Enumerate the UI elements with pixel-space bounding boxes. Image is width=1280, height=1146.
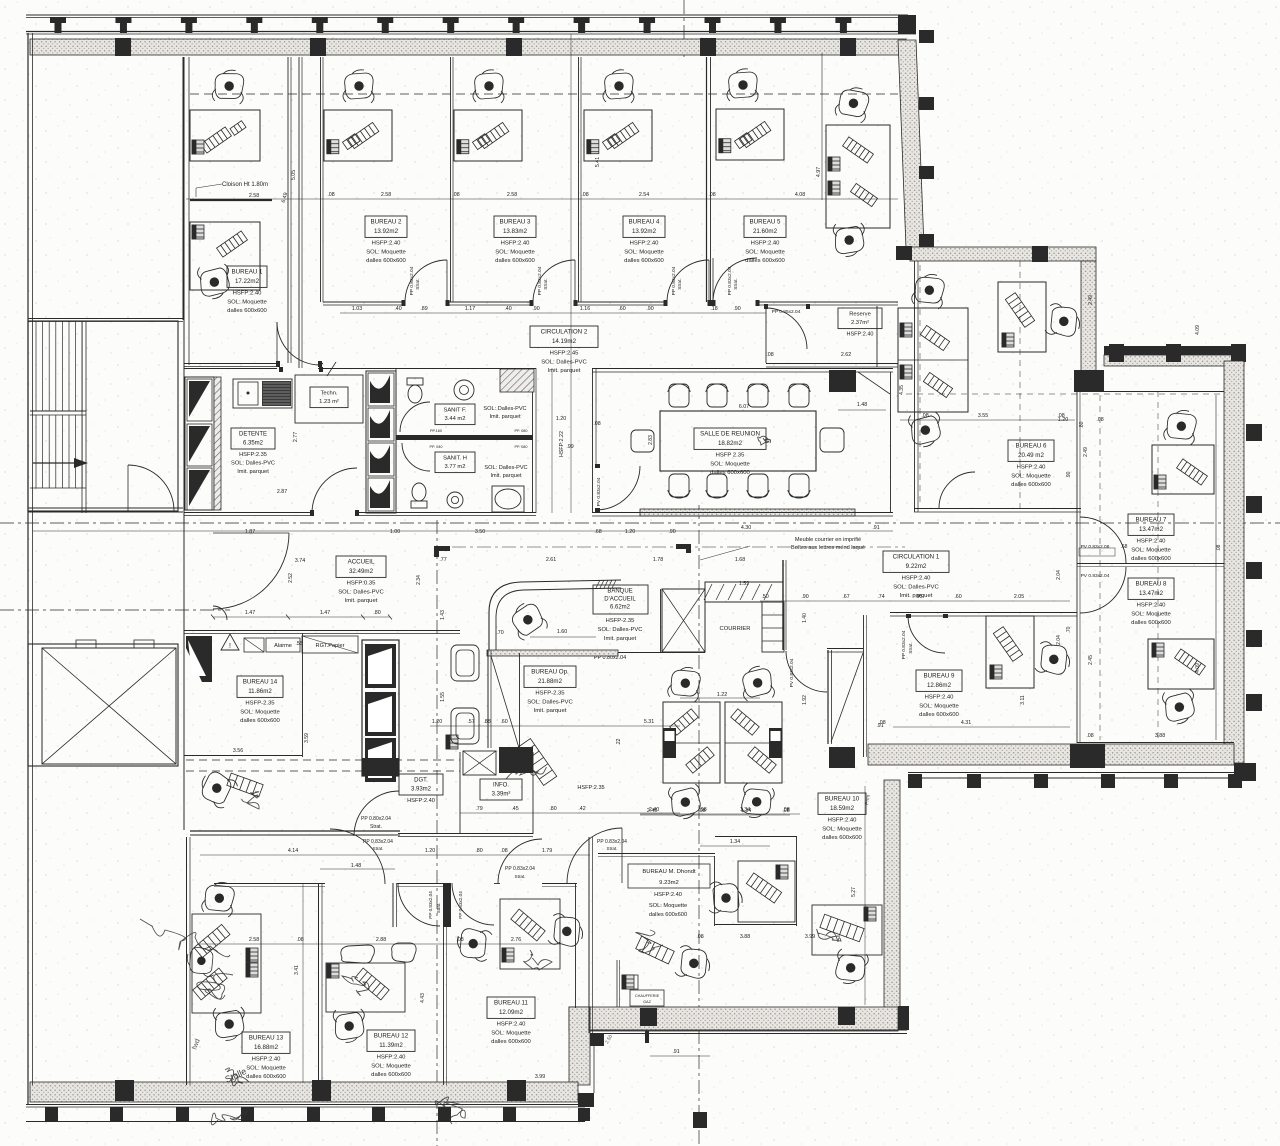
stair landing — [30, 410, 86, 412]
right wing bottom ticks — [908, 774, 922, 788]
door arc into b11 left — [452, 883, 494, 925]
left block outer wall — [186, 837, 188, 1085]
svg-text:dalles 600x600: dalles 600x600 — [227, 308, 267, 314]
svg-text:1.79: 1.79 — [542, 848, 552, 854]
bureau14 walls — [302, 633, 304, 757]
svg-text:dalles 600x600: dalles 600x600 — [1131, 556, 1171, 562]
svg-text:Reserve: Reserve — [849, 311, 871, 317]
circulation2 dim row — [340, 312, 766, 314]
svg-text:18.59m2: 18.59m2 — [830, 805, 855, 812]
svg-text:5.31: 5.31 — [644, 719, 654, 725]
svg-text:HSFP:2.40: HSFP:2.40 — [372, 241, 402, 247]
alarme triangle — [221, 634, 239, 650]
bureau7 label — [1128, 514, 1174, 535]
bureau10 bottom frame — [590, 1029, 907, 1031]
svg-text:COURRIER: COURRIER — [720, 626, 751, 632]
svg-text:4.09: 4.09 — [1195, 325, 1201, 335]
bureau op label — [524, 666, 576, 687]
svg-text:Imit. parquet: Imit. parquet — [490, 473, 522, 479]
svg-text:SOL: Dalles-PVC: SOL: Dalles-PVC — [338, 589, 384, 595]
door frame stub b12 — [392, 883, 394, 927]
svg-text:.91: .91 — [672, 1049, 679, 1055]
svg-text:dalles 600x600: dalles 600x600 — [624, 258, 664, 264]
stair door arc — [128, 465, 174, 511]
svg-text:.42: .42 — [578, 806, 585, 812]
svg-text:PP 0.83x2.04: PP 0.83x2.04 — [458, 891, 463, 919]
salle chair right — [820, 428, 844, 452]
open desk sketch 2 — [517, 739, 556, 786]
svg-text:Cloison Ht 1.80m: Cloison Ht 1.80m — [222, 182, 268, 188]
svg-text:.90: .90 — [668, 529, 675, 535]
bureau2 label — [365, 216, 407, 237]
svg-text:BUREAU 7: BUREAU 7 — [1136, 517, 1168, 524]
svg-text:1.34: 1.34 — [740, 807, 750, 813]
stairwell box — [28, 321, 178, 511]
svg-text:.91: .91 — [876, 723, 883, 729]
svg-text:GAZ: GAZ — [643, 1000, 651, 1004]
cluster printers — [663, 728, 676, 758]
svg-text:SOL: Dalles-PVC: SOL: Dalles-PVC — [483, 406, 526, 412]
svg-text:.60: .60 — [500, 719, 507, 725]
top facade inner line — [26, 31, 916, 33]
svg-text:13.92m2: 13.92m2 — [632, 228, 657, 235]
svg-text:Imit. parquet: Imit. parquet — [548, 368, 581, 374]
svg-text:1.48: 1.48 — [351, 863, 361, 869]
salle walls — [592, 368, 893, 370]
bureau1 chair upper — [212, 69, 246, 105]
svg-text:4.43: 4.43 — [420, 993, 426, 1003]
salle table — [660, 411, 816, 471]
bureau1/2 duct walls — [287, 57, 289, 363]
svg-text:1.22: 1.22 — [717, 692, 727, 698]
bureau10 SE corner — [898, 1006, 909, 1030]
svg-text:3.41: 3.41 — [294, 965, 300, 975]
door arc bureau2 — [405, 260, 447, 302]
svg-text:1.68: 1.68 — [735, 557, 745, 563]
svg-text:HSFP:2.40: HSFP:2.40 — [407, 798, 435, 804]
svg-text:.08: .08 — [1057, 413, 1064, 419]
salle door arc — [596, 466, 640, 510]
svg-text:.80: .80 — [1079, 421, 1085, 428]
reserve door arc — [766, 308, 807, 349]
rgt cabinet stack — [362, 640, 399, 776]
bureau12 upper sketch blobs — [341, 945, 375, 963]
svg-text:2.58: 2.58 — [249, 937, 259, 943]
svg-text:.08: .08 — [1216, 544, 1222, 551]
salle black box — [829, 370, 856, 392]
svg-text:.67: .67 — [842, 594, 849, 600]
svg-text:BUREAU 8: BUREAU 8 — [1136, 581, 1168, 588]
svg-text:SOL: Moquette: SOL: Moquette — [371, 1063, 411, 1069]
svg-text:SOL: Moquette: SOL: Moquette — [624, 249, 664, 255]
svg-text:D'ACCUEIL: D'ACCUEIL — [604, 597, 636, 603]
bureau9 chair — [1034, 641, 1072, 677]
svg-text:PV 0.83x2.06: PV 0.83x2.06 — [1081, 544, 1110, 550]
right wing right band — [1224, 361, 1244, 763]
bureau6 door arc — [939, 472, 975, 508]
svg-text:Strat.: Strat. — [607, 846, 618, 851]
accueil entry arcs — [213, 533, 289, 609]
svg-text:.89: .89 — [420, 306, 427, 312]
svg-text:2.88: 2.88 — [376, 937, 386, 943]
svg-text:.70: .70 — [496, 630, 503, 636]
stair arrow — [33, 462, 74, 464]
svg-text:2.87: 2.87 — [277, 489, 287, 495]
svg-text:Strat.: Strat. — [543, 278, 549, 289]
svg-text:SOL: Moquette: SOL: Moquette — [822, 826, 862, 832]
left outer wall — [27, 33, 29, 1104]
stair treads upper flight — [35, 321, 37, 411]
sanitf basin — [454, 380, 474, 400]
top band column squares — [115, 38, 131, 56]
svg-text:.79: .79 — [475, 806, 482, 812]
right wing top black bar — [1104, 346, 1244, 355]
bureau op left wall — [487, 650, 489, 748]
svg-text:3.39m²: 3.39m² — [492, 792, 511, 798]
centerline vertical top — [683, 0, 685, 57]
svg-text:HSFP:2.22: HSFP:2.22 — [559, 431, 565, 457]
svg-text:5.27: 5.27 — [851, 887, 857, 897]
right wing SE corner — [1234, 763, 1256, 781]
svg-text:20.49 m2: 20.49 m2 — [1018, 452, 1044, 459]
svg-text:SOL: Moquette: SOL: Moquette — [491, 1030, 531, 1036]
svg-text:dalles 600x600: dalles 600x600 — [495, 258, 535, 264]
svg-text:.57: .57 — [467, 719, 474, 725]
bureau14 black door — [186, 636, 212, 682]
svg-text:2.52: 2.52 — [288, 573, 294, 583]
bureau9 desk — [986, 616, 1034, 688]
bureau5 inner line — [821, 53, 823, 200]
chaufferie flue — [616, 960, 618, 1007]
svg-text:dalles 600x600: dalles 600x600 — [366, 258, 406, 264]
cluster desks — [663, 702, 720, 783]
svg-text:1.17: 1.17 — [465, 306, 475, 312]
svg-text:11.39m2: 11.39m2 — [379, 1042, 403, 1049]
svg-text:2.54: 2.54 — [639, 192, 649, 198]
svg-text:1.60: 1.60 — [557, 629, 567, 635]
svg-text:3.55: 3.55 — [978, 413, 988, 419]
svg-text:HSFP:2.40: HSFP:2.40 — [1137, 539, 1167, 545]
svg-text:.80: .80 — [549, 806, 556, 812]
svg-text:PP 0.83x2.04: PP 0.83x2.04 — [597, 839, 627, 845]
core wall x184 — [183, 57, 185, 830]
svg-text:dalles 600x600: dalles 600x600 — [371, 1072, 411, 1078]
svg-text:2.49: 2.49 — [1088, 295, 1094, 305]
bureau5 corner chairs — [834, 84, 873, 124]
bureau7 chair — [1163, 408, 1199, 446]
mid office desk — [738, 861, 795, 922]
svg-text:HSFP 2.35: HSFP 2.35 — [716, 453, 745, 459]
svg-text:PP 0.83x2.04: PP 0.83x2.04 — [505, 866, 535, 872]
bureau10 bottom band — [569, 1007, 898, 1031]
svg-text:SOL: Moquette: SOL: Moquette — [1011, 473, 1051, 479]
middle dim string — [33, 530, 893, 532]
svg-text:.80: .80 — [475, 848, 482, 854]
elevator outer — [28, 644, 178, 766]
svg-text:17.22m2: 17.22m2 — [235, 278, 260, 285]
bureau10 label — [818, 793, 866, 814]
door arc bureau1 — [277, 322, 320, 365]
wall above bureau14 — [184, 630, 460, 632]
handwriting bottom-center — [435, 1097, 465, 1124]
svg-text:SOL: Moquette: SOL: Moquette — [227, 299, 267, 305]
svg-text:HSFP:2.40: HSFP:2.40 — [925, 695, 955, 701]
partition b3/b4 — [578, 57, 580, 302]
svg-text:HSFP:2.40: HSFP:2.40 — [751, 241, 781, 247]
dgt door arc — [354, 791, 399, 836]
top wall stipple band — [30, 39, 906, 55]
svg-text:SANIT F.: SANIT F. — [443, 407, 466, 413]
bureau6 desk left — [898, 308, 968, 412]
svg-text:1.47: 1.47 — [245, 610, 255, 616]
svg-text:1.20: 1.20 — [432, 719, 442, 725]
svg-text:5.05: 5.05 — [291, 170, 297, 180]
svg-text:Techn.: Techn. — [320, 390, 337, 396]
svg-text:ACCUEIL: ACCUEIL — [348, 559, 375, 566]
corridor right door arc — [567, 828, 622, 883]
door jamb stubs — [402, 300, 406, 306]
bureau9 label — [916, 670, 962, 691]
svg-text:SALLE DE REUNION: SALLE DE REUNION — [700, 431, 760, 438]
bureau8 desk — [1148, 639, 1214, 689]
svg-text:.91: .91 — [872, 525, 879, 531]
svg-text:3.59: 3.59 — [304, 733, 310, 743]
courrier walls — [660, 589, 662, 652]
dgt label — [399, 774, 443, 795]
svg-text:.90: .90 — [733, 306, 740, 312]
svg-text:.08: .08 — [782, 807, 789, 813]
svg-text:HSFP:0.35: HSFP:0.35 — [347, 581, 377, 587]
svg-text:13.47m2: 13.47m2 — [1139, 590, 1164, 597]
right wing bottom stipple — [868, 744, 1234, 765]
bureau3 desk — [454, 110, 522, 161]
svg-text:4.14: 4.14 — [288, 848, 298, 854]
info black block — [499, 747, 533, 773]
svg-text:Strat.: Strat. — [515, 874, 526, 879]
top-left room walls — [182, 57, 184, 320]
b10 desk — [812, 905, 882, 955]
svg-text:HSFP:2.40: HSFP:2.40 — [1017, 465, 1047, 471]
chaufferie label — [630, 990, 664, 1006]
svg-text:1.03: 1.03 — [352, 306, 362, 312]
svg-text:.40: .40 — [504, 306, 511, 312]
bureau3 chair — [473, 70, 504, 103]
svg-text:SOL: Dalles-PVC: SOL: Dalles-PVC — [527, 699, 573, 705]
svg-text:14.19m2: 14.19m2 — [552, 338, 577, 345]
salle chairs top — [669, 384, 689, 407]
bureau8 chair — [1162, 688, 1198, 726]
svg-text:4.30: 4.30 — [741, 525, 751, 531]
svg-text:4.97: 4.97 — [816, 167, 822, 177]
top facade outer line — [26, 14, 908, 16]
bureau1 label — [227, 266, 267, 287]
svg-text:3.44 m2: 3.44 m2 — [445, 416, 466, 422]
right wing bottom frame — [908, 772, 1242, 774]
b7b8 top wall — [1096, 391, 1224, 393]
right wing right squares — [1246, 424, 1262, 441]
svg-text:BUREAU 2: BUREAU 2 — [371, 219, 403, 226]
svg-text:!: ! — [229, 643, 231, 650]
svg-text:2.76: 2.76 — [511, 937, 521, 943]
svg-text:.22: .22 — [616, 738, 622, 745]
svg-text:PP 0.85x2.04: PP 0.85x2.04 — [772, 309, 801, 315]
bureau6 chairs left — [911, 272, 947, 310]
svg-text:2.45: 2.45 — [1088, 655, 1094, 665]
bureau9 door arc — [908, 616, 945, 653]
svg-text:.08: .08 — [1086, 733, 1093, 739]
svg-text:dalles 600x600: dalles 600x600 — [1011, 482, 1051, 488]
svg-text:3.11: 3.11 — [1020, 695, 1026, 705]
bottom ticks — [45, 1107, 58, 1121]
svg-text:Imit. parquet: Imit. parquet — [489, 414, 521, 420]
svg-text:SOL: Dalles-PVC: SOL: Dalles-PVC — [541, 359, 587, 365]
svg-text:1.43: 1.43 — [440, 610, 446, 620]
svg-text:SOL: Dalles-PVC: SOL: Dalles-PVC — [484, 465, 527, 471]
svg-text:dalles 600x600: dalles 600x600 — [240, 718, 280, 724]
info crossed box — [463, 751, 496, 775]
svg-text:Imit. parquet: Imit. parquet — [604, 636, 637, 642]
svg-text:BUREAU 4: BUREAU 4 — [629, 219, 661, 226]
construction vline b6 dash — [1019, 261, 1021, 508]
svg-text:HSFP:2.40: HSFP:2.40 — [902, 576, 932, 582]
svg-text:3.88: 3.88 — [1155, 733, 1165, 739]
circulation1 dim row — [760, 600, 1070, 602]
wall left of bureau9 zone — [827, 650, 829, 744]
bureau6 desk right — [998, 282, 1046, 352]
door arc bureau5 — [713, 258, 757, 302]
svg-text:dalles 600x600: dalles 600x600 — [491, 1039, 531, 1045]
svg-text:.55: .55 — [295, 641, 302, 647]
ramp diagonal — [831, 653, 863, 742]
svg-text:1.48: 1.48 — [857, 402, 867, 408]
svg-text:Strat.: Strat. — [677, 278, 683, 289]
right wing top stipple — [1104, 355, 1244, 366]
svg-text:21.60m2: 21.60m2 — [753, 228, 778, 235]
accueil dim row — [213, 616, 390, 618]
bureau8 label — [1128, 578, 1174, 599]
fixtures right of accueil — [451, 645, 479, 681]
bureau9 top wall — [890, 612, 1077, 614]
svg-text:BUREAU M. Dhondt: BUREAU M. Dhondt — [642, 869, 696, 875]
svg-text:2.40: 2.40 — [649, 807, 659, 813]
svg-text:13.47m2: 13.47m2 — [1139, 526, 1164, 533]
sanith urinal — [447, 492, 463, 508]
svg-text:3.74: 3.74 — [295, 558, 305, 564]
wall x865 — [863, 615, 865, 757]
svg-text:BANQUE: BANQUE — [607, 589, 632, 595]
bureau12 door arc — [398, 884, 440, 926]
bureau4 desk — [584, 110, 652, 161]
svg-text:1.92: 1.92 — [802, 695, 808, 705]
bureau6 dashes — [919, 265, 921, 505]
bureau11 label — [487, 997, 535, 1018]
dashed work line top rooms — [190, 93, 898, 95]
dashed lines below b14 — [186, 759, 460, 761]
NE return band to bureau6 — [910, 247, 1096, 261]
black column junction b9 — [829, 747, 855, 768]
bureau12 desks — [326, 963, 405, 1012]
svg-text:PP 0.83x2.04: PP 0.83x2.04 — [428, 891, 433, 919]
svg-text:SOL: Moquette: SOL: Moquette — [1131, 547, 1171, 553]
svg-text:.70: .70 — [1066, 626, 1072, 633]
svg-text:dalles 600x600: dalles 600x600 — [649, 912, 687, 918]
stair treads lower flight — [35, 415, 37, 488]
bottom band baseline — [26, 1104, 585, 1106]
svg-text:SANIT. H: SANIT. H — [443, 455, 467, 461]
top walls bureaux 12/13 — [214, 883, 325, 885]
svg-text:3.50: 3.50 — [475, 529, 485, 535]
svg-text:2.58: 2.58 — [249, 193, 259, 199]
svg-text:21.88m2: 21.88m2 — [538, 678, 563, 685]
svg-text:PP. 080: PP. 080 — [514, 445, 527, 449]
elevator shaft crossed — [42, 648, 176, 764]
svg-text:Imit. parquet: Imit. parquet — [345, 598, 378, 604]
svg-text:.08: .08 — [452, 192, 459, 198]
svg-text:INFO.: INFO. — [493, 783, 509, 789]
sanit lobby door arc — [312, 468, 357, 513]
svg-text:.08: .08 — [581, 192, 588, 198]
svg-text:1.55: 1.55 — [440, 692, 446, 702]
svg-text:Strat.: Strat. — [733, 278, 739, 289]
svg-text:.08: .08 — [593, 421, 600, 427]
svg-text:1.59: 1.59 — [739, 581, 749, 587]
svg-text:3.99: 3.99 — [805, 934, 815, 940]
bureau13 desks sketchy — [192, 914, 261, 1013]
construction hline right dash — [906, 393, 1224, 395]
svg-text:9.23m2: 9.23m2 — [659, 880, 679, 886]
svg-text:PP 0.83x2.04: PP 0.83x2.04 — [409, 266, 415, 295]
svg-text:1.00: 1.00 — [390, 529, 400, 535]
svg-text:.18: .18 — [710, 306, 717, 312]
NE corner block — [898, 15, 916, 34]
bureau5 chair — [727, 69, 758, 102]
svg-text:12.09m2: 12.09m2 — [499, 1009, 524, 1016]
centerline vertical main — [698, 505, 700, 1146]
b10 glazing line — [864, 786, 866, 1005]
svg-text:Imit. parquet: Imit. parquet — [534, 708, 567, 714]
banque hatch end — [596, 580, 600, 588]
bureau6 chair right — [1044, 303, 1082, 339]
kitchen drainer dark — [262, 381, 291, 406]
svg-text:13.92m2: 13.92m2 — [374, 228, 399, 235]
svg-text:HSFP:2.40: HSFP:2.40 — [497, 1022, 527, 1028]
centerline horizontal main — [0, 522, 1280, 524]
svg-text:2.58: 2.58 — [507, 192, 517, 198]
svg-text:Strat.: Strat. — [908, 642, 914, 653]
svg-text:BUREAU 3: BUREAU 3 — [500, 219, 532, 226]
corridor wall y832 — [190, 830, 400, 832]
svg-text:.95: .95 — [915, 594, 922, 600]
svg-text:PP 0.83x2.04: PP 0.83x2.04 — [901, 630, 907, 659]
wall circ1/b78 — [1076, 392, 1078, 743]
sanitf label — [435, 404, 475, 425]
cluster chairs — [667, 665, 703, 703]
svg-text:4.08: 4.08 — [795, 192, 805, 198]
black L marker — [434, 546, 450, 557]
centerline horizontal lobby — [0, 609, 230, 611]
svg-text:2.62: 2.62 — [841, 352, 851, 358]
svg-text:Alarme: Alarme — [274, 643, 292, 649]
rgt papier — [302, 636, 358, 653]
bottom band squares — [115, 1080, 134, 1101]
b7/b8 partition — [1077, 563, 1224, 565]
svg-text:HSFP:2.35: HSFP:2.35 — [239, 452, 267, 458]
rgt stack base black — [362, 758, 399, 776]
svg-text:1.40: 1.40 — [802, 613, 808, 623]
sanitary south wall — [184, 512, 312, 514]
b7 door arc — [1080, 517, 1126, 563]
svg-text:3.99: 3.99 — [535, 1074, 545, 1080]
